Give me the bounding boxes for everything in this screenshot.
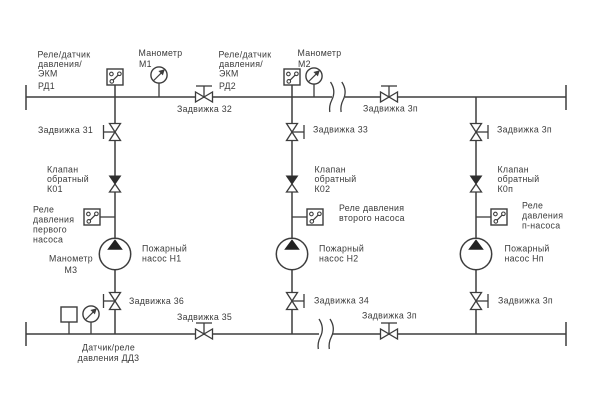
label Манометр М1	[139, 48, 183, 69]
svg-text:насоса: насоса	[33, 235, 63, 245]
label РД1 block	[38, 50, 91, 92]
svg-text:Задвижка 31: Задвижка 31	[38, 125, 93, 135]
check valve К0п	[471, 176, 482, 192]
svg-text:Задвижка 3п: Задвижка 3п	[497, 125, 552, 135]
bottom manifold pipe right segment	[332, 333, 566, 335]
svg-text:Пожарный: Пожарный	[319, 244, 364, 254]
svg-text:насос Н2: насос Н2	[319, 254, 358, 264]
svg-text:Реле: Реле	[522, 201, 543, 211]
top manifold pipe left segment	[26, 96, 332, 98]
top manifold pipe right segment	[345, 96, 566, 98]
valve Задвижка 3п upper	[471, 124, 489, 141]
svg-text:Задвижка 32: Задвижка 32	[177, 104, 232, 114]
svg-text:Манометр: Манометр	[139, 48, 183, 58]
svg-text:М2: М2	[298, 59, 311, 69]
branch 2 riser wire	[291, 85, 293, 334]
check valve К02	[287, 176, 298, 192]
svg-text:Задвижка 3п: Задвижка 3п	[362, 311, 417, 321]
valve Задвижка 35 on bottom pipe	[196, 323, 213, 339]
manometer M2	[306, 68, 322, 84]
valve Задвижка 31	[104, 124, 121, 141]
pump Н1	[99, 238, 130, 269]
label Реле давления первого насоса	[33, 205, 74, 245]
svg-text:Реле/датчик: Реле/датчик	[219, 50, 272, 60]
svg-text:давления/: давления/	[219, 59, 263, 69]
valve Задвижка 32 on top pipe	[196, 86, 213, 102]
svg-text:давления ДД3: давления ДД3	[78, 353, 140, 363]
svg-text:ЭКМ: ЭКМ	[38, 69, 58, 79]
valve Задвижка 33	[287, 124, 305, 141]
svg-text:насос Н1: насос Н1	[142, 254, 181, 264]
svg-text:Манометр: Манометр	[49, 254, 93, 264]
manometer М3	[83, 306, 99, 322]
svg-text:Задвижка 34: Задвижка 34	[314, 296, 369, 306]
bottom manifold pipe left segment	[26, 333, 319, 335]
valve Задвижка 3п on bottom pipe	[381, 323, 398, 339]
pump Н2	[276, 238, 307, 269]
svg-text:Манометр: Манометр	[298, 48, 342, 58]
svg-text:К02: К02	[315, 184, 331, 194]
svg-text:первого: первого	[33, 225, 67, 235]
pressure sensor ДД3 box	[61, 307, 77, 322]
branch 1 riser wire	[114, 85, 116, 334]
svg-text:Датчик/реле: Датчик/реле	[82, 343, 135, 353]
label Пожарный насос Н1	[142, 244, 187, 264]
bottom pipe break	[318, 319, 333, 349]
svg-text:К0п: К0п	[498, 184, 514, 194]
wire pressure sensor ДД3 stem	[68, 322, 70, 334]
svg-text:Пожарный: Пожарный	[142, 244, 187, 254]
svg-text:Задвижка 33: Задвижка 33	[313, 125, 368, 135]
svg-text:второго насоса: второго насоса	[339, 213, 405, 223]
svg-text:М1: М1	[139, 59, 152, 69]
pressure relay of pump 2	[307, 209, 323, 225]
wire relay-to-branch 1 connector	[100, 216, 115, 218]
svg-text:насос Нп: насос Нп	[505, 254, 544, 264]
svg-text:Задвижка 36: Задвижка 36	[129, 296, 184, 306]
valve Задвижка 36	[104, 293, 121, 310]
svg-text:Реле давления: Реле давления	[339, 203, 404, 213]
pump Нп	[460, 238, 491, 269]
wire relay-to-branch 3 connector	[476, 216, 491, 218]
label Датчик/реле давления ДД3	[78, 343, 140, 364]
svg-text:Клапан: Клапан	[315, 165, 346, 175]
svg-text:РД1: РД1	[38, 81, 55, 91]
label Пожарный насос Нп	[505, 244, 550, 264]
svg-text:давления: давления	[522, 211, 563, 221]
svg-text:ЭКМ: ЭКМ	[219, 69, 239, 79]
valve Задвижка 3п lower	[471, 293, 489, 310]
valve Задвижка 3п on top pipe	[381, 86, 398, 102]
svg-text:Реле/датчик: Реле/датчик	[38, 50, 91, 60]
label Клапан обратный К01	[47, 165, 89, 195]
label Клапан обратный К02	[315, 165, 357, 195]
svg-text:Задвижка 35: Задвижка 35	[177, 312, 232, 322]
manometer M1	[151, 67, 167, 83]
wire manometer M2 stem	[313, 83, 315, 97]
label Клапан обратный К0п	[498, 165, 540, 195]
svg-text:давления/: давления/	[38, 59, 82, 69]
svg-text:Реле: Реле	[33, 205, 54, 215]
label РД2 block	[219, 50, 272, 92]
top pipe right terminator	[565, 85, 567, 110]
pressure relay/sensor РД2	[284, 69, 300, 85]
top pipe break	[330, 82, 346, 112]
label Пожарный насос Н2	[319, 244, 364, 264]
svg-text:обратный: обратный	[315, 174, 357, 184]
svg-text:Клапан: Клапан	[47, 165, 78, 175]
bottom pipe right terminator	[565, 322, 567, 346]
svg-text:РД2: РД2	[219, 81, 236, 91]
label Реле давления п-насоса	[522, 201, 563, 231]
check valve К01	[110, 176, 121, 192]
branch 3 riser wire	[475, 97, 477, 334]
wire manometer M1 stem	[158, 83, 160, 97]
svg-text:М3: М3	[65, 265, 78, 275]
label Манометр М2	[298, 48, 342, 69]
svg-text:давления: давления	[33, 215, 74, 225]
label Реле давления второго насоса	[339, 203, 405, 223]
svg-text:обратный: обратный	[498, 174, 540, 184]
pressure relay of pump 1	[84, 209, 100, 225]
valve Задвижка 34	[287, 293, 305, 310]
svg-text:Пожарный: Пожарный	[505, 244, 550, 254]
svg-text:К01: К01	[47, 184, 63, 194]
wire relay-to-branch 2 connector	[292, 216, 307, 218]
pressure relay of pump n	[491, 209, 507, 225]
wire manometer М3 stem	[90, 322, 92, 334]
bottom pipe left terminator	[25, 322, 27, 346]
top pipe left terminator	[25, 85, 27, 110]
svg-text:Задвижка 3п: Задвижка 3п	[498, 296, 553, 306]
svg-text:Задвижка 3п: Задвижка 3п	[363, 104, 418, 114]
pressure relay/sensor РД1	[107, 69, 123, 85]
svg-text:обратный: обратный	[47, 174, 89, 184]
label Манометр М3	[49, 254, 93, 276]
svg-text:Клапан: Клапан	[498, 165, 529, 175]
svg-text:п-насоса: п-насоса	[522, 221, 560, 231]
